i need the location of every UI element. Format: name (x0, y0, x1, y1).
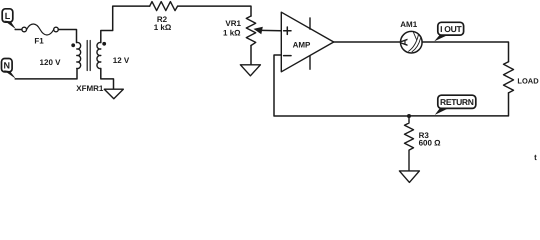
op-amp power pins (309, 18, 311, 69)
wire secondary bottom to ground (101, 69, 114, 90)
wire L to fuse (15, 29, 22, 31)
flag I OUT (434, 22, 463, 41)
svg-text:1 kΩ: 1 kΩ (154, 23, 172, 32)
svg-text:AMP: AMP (293, 41, 311, 50)
svg-text:AM1: AM1 (400, 20, 417, 29)
wire op-amp minus feedback (274, 55, 409, 116)
primary phase dot (71, 43, 75, 47)
terminal N (2, 59, 16, 79)
wire VR1 bottom to ground (250, 46, 252, 65)
svg-text:1 kΩ: 1 kΩ (223, 29, 241, 38)
op-amp U1 AMP (281, 12, 333, 72)
terminal L (2, 9, 16, 30)
ammeter AM1 (398, 31, 422, 53)
junction node R3/feedback (407, 114, 411, 118)
svg-text:600 Ω: 600 Ω (419, 139, 442, 148)
svg-text:t: t (534, 153, 537, 162)
ground (transformer) (104, 89, 123, 99)
svg-text:120 V: 120 V (40, 58, 62, 67)
svg-text:N: N (4, 61, 11, 71)
svg-text:12 V: 12 V (113, 56, 130, 65)
wire LOAD bottom to return rail (409, 93, 509, 116)
wire fuse to transformer primary top (58, 30, 76, 43)
transformer core (87, 41, 90, 71)
svg-text:L: L (5, 11, 11, 21)
VR1 wiper arrow (254, 27, 282, 35)
svg-text:XFMR1: XFMR1 (76, 84, 104, 93)
ground (VR1) (240, 65, 260, 76)
wire AM1 to LOAD top (422, 42, 508, 62)
fuse F1 (22, 24, 58, 35)
secondary phase dot (102, 42, 106, 46)
load resistor LOAD (504, 62, 514, 93)
wire op-amp output (334, 41, 401, 43)
wire secondary top to top rail (101, 6, 150, 42)
wire N to transformer primary bottom (15, 69, 77, 79)
transformer XFMR1 secondary winding (97, 42, 101, 68)
transformer XFMR1 primary winding (77, 42, 81, 68)
svg-text:F1: F1 (34, 37, 44, 46)
svg-text:I OUT: I OUT (440, 24, 462, 34)
wire R2 to VR1 (178, 6, 251, 16)
svg-text:VR1: VR1 (225, 19, 241, 28)
resistor R2 (150, 2, 178, 11)
svg-text:LOAD: LOAD (517, 76, 539, 85)
ground (R3) (399, 171, 419, 183)
svg-text:A: A (398, 38, 410, 46)
flag RETURN (435, 95, 476, 115)
resistor R3 (405, 116, 414, 171)
potentiometer VR1 (246, 16, 255, 46)
svg-text:RETURN: RETURN (440, 97, 474, 107)
